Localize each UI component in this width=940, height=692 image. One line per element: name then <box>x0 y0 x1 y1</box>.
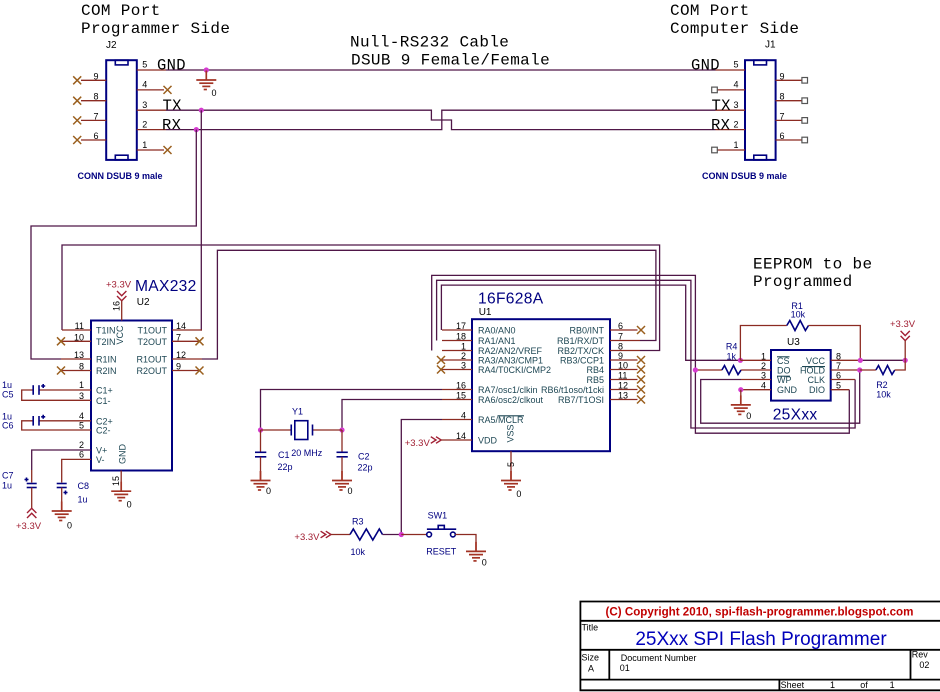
svg-text:T1OUT: T1OUT <box>137 326 167 336</box>
J1 pin 7 <box>776 111 808 123</box>
resistor R4 <box>695 342 771 375</box>
label EEPROM to be Programmed <box>753 256 872 292</box>
svg-text:GND: GND <box>691 57 720 75</box>
svg-text:R3: R3 <box>352 516 364 526</box>
U1 pin 15 stub <box>442 391 472 401</box>
node reset junction <box>399 532 404 537</box>
U1 pin 8 stub <box>610 342 640 352</box>
svg-text:C1-: C1- <box>96 396 111 406</box>
node VCC-R1 junction <box>858 358 863 363</box>
svg-text:2: 2 <box>461 351 466 361</box>
label COM Port Computer Side <box>670 2 799 38</box>
svg-text:Programmed: Programmed <box>753 273 853 291</box>
svg-text:RA0/AN0: RA0/AN0 <box>478 326 516 336</box>
svg-text:Sheet: Sheet <box>781 680 805 690</box>
capacitor C2 <box>337 430 373 480</box>
U1 pin 7 stub <box>610 332 640 342</box>
capacitor C6 <box>2 411 91 431</box>
svg-text:MAX232: MAX232 <box>135 278 197 295</box>
svg-text:CONN DSUB 9 male: CONN DSUB 9 male <box>78 171 163 181</box>
svg-text:RB1/RX/DT: RB1/RX/DT <box>557 336 605 346</box>
wire RA7 to crystal node A <box>261 390 443 431</box>
svg-text:RA3/AN3/CMP1: RA3/AN3/CMP1 <box>478 356 543 366</box>
J2 pin 9 <box>73 71 106 84</box>
wire RA2 net to R4 and EEPROM DIO <box>432 275 850 433</box>
svg-text:+3.3V: +3.3V <box>16 521 42 532</box>
svg-text:CS: CS <box>777 356 790 366</box>
svg-text:10k: 10k <box>876 389 891 399</box>
svg-text:11: 11 <box>75 321 84 331</box>
svg-text:C2: C2 <box>358 452 370 462</box>
svg-text:0: 0 <box>212 88 217 98</box>
J2 pin 2 <box>137 116 182 134</box>
U1 pin 9 no-connect <box>610 351 645 364</box>
svg-text:SW1: SW1 <box>428 511 448 521</box>
svg-text:7: 7 <box>94 111 99 121</box>
svg-text:VSS: VSS <box>506 424 516 442</box>
op-amp U2 MAX232 body <box>91 278 197 471</box>
svg-text:C8: C8 <box>78 481 90 491</box>
power +3.3V at U2 pin 16 <box>106 280 132 321</box>
svg-text:3: 3 <box>461 361 466 371</box>
svg-text:8: 8 <box>618 342 623 352</box>
J2 pin 6 <box>73 131 106 144</box>
svg-text:7: 7 <box>176 333 181 343</box>
svg-text:1u: 1u <box>2 481 12 491</box>
svg-text:RB2/TX/CK: RB2/TX/CK <box>557 346 604 356</box>
svg-text:COM Port: COM Port <box>670 2 750 20</box>
svg-text:22p: 22p <box>358 463 373 473</box>
svg-text:9: 9 <box>780 71 785 81</box>
svg-text:DIO: DIO <box>809 385 825 395</box>
EEPROM U3 25Xxx body <box>771 337 831 424</box>
svg-text:10k: 10k <box>791 310 806 320</box>
U1 pin 5 VSS stub <box>506 451 516 479</box>
svg-text:7: 7 <box>618 332 623 342</box>
svg-text:0: 0 <box>67 521 72 531</box>
svg-text:3: 3 <box>761 371 766 381</box>
svg-text:9: 9 <box>176 362 181 372</box>
svg-text:6: 6 <box>94 131 99 141</box>
svg-text:RB7/T1OSI: RB7/T1OSI <box>558 395 604 405</box>
svg-text:13: 13 <box>618 391 628 401</box>
svg-text:DSUB 9 Female/Female: DSUB 9 Female/Female <box>351 52 550 70</box>
svg-text:RB6/t1oso/t1cki: RB6/t1oso/t1cki <box>541 385 604 395</box>
node GND junction <box>204 67 209 72</box>
svg-text:RA6/osc2/clkout: RA6/osc2/clkout <box>478 395 544 405</box>
label COM Port Programmer Side <box>81 2 230 38</box>
svg-text:10: 10 <box>618 361 628 371</box>
U1 pin 2 no-connect <box>437 351 472 364</box>
svg-text:Size: Size <box>582 653 600 663</box>
wire RA6 to crystal node B <box>342 400 442 431</box>
wire MCLR to reset node <box>401 420 442 535</box>
U1 pin 13 no-connect <box>610 391 645 404</box>
svg-text:+3.3V: +3.3V <box>890 319 916 330</box>
svg-text:GND: GND <box>118 444 128 465</box>
svg-text:C7: C7 <box>2 471 14 481</box>
svg-text:Programmer Side: Programmer Side <box>81 20 230 38</box>
svg-text:RX: RX <box>162 116 182 134</box>
svg-text:4: 4 <box>142 80 147 90</box>
svg-text:6: 6 <box>836 371 841 381</box>
crystal Y1 <box>261 407 343 459</box>
power +3.3V at R3 <box>294 531 331 543</box>
svg-text:RB4: RB4 <box>586 365 604 375</box>
svg-text:RX: RX <box>711 116 731 134</box>
wire U2 T1IN riser to U1 RB2 <box>62 245 660 351</box>
svg-text:T1IN: T1IN <box>96 326 116 336</box>
svg-text:0: 0 <box>127 499 132 509</box>
node EEPROM CS junction <box>738 358 743 363</box>
svg-text:U1: U1 <box>479 307 492 318</box>
svg-text:02: 02 <box>919 660 929 670</box>
svg-text:J2: J2 <box>106 40 117 51</box>
U2 pin 12 R1OUT stub <box>172 350 202 360</box>
ground 0 below C1 <box>251 471 272 496</box>
svg-text:4: 4 <box>761 381 766 391</box>
svg-text:0: 0 <box>266 486 271 496</box>
svg-text:7: 7 <box>780 111 785 121</box>
J1 pin 2 <box>711 116 745 134</box>
U1 pin 3 no-connect <box>437 361 472 374</box>
node EEPROM GND junction <box>738 387 743 392</box>
J2 pin 7 <box>73 111 106 124</box>
svg-text:12: 12 <box>618 381 628 391</box>
svg-text:R2OUT: R2OUT <box>136 366 167 376</box>
wire RA0 net to EEPROM CS <box>441 285 740 360</box>
svg-text:U2: U2 <box>137 297 150 308</box>
svg-text:0: 0 <box>482 558 487 568</box>
U1 pin 18 stub <box>442 332 472 342</box>
U1 pin 1 stub <box>442 342 472 352</box>
svg-text:8: 8 <box>79 362 84 372</box>
svg-text:1u: 1u <box>78 495 88 505</box>
svg-text:14: 14 <box>176 321 186 331</box>
J2 pin 4 <box>137 80 172 94</box>
node crystal left <box>258 427 263 432</box>
U2 pin 14 T1OUT stub <box>172 321 202 331</box>
U2 pin 7 T2OUT no-connect <box>172 333 204 346</box>
J1 pin 6 <box>776 131 808 143</box>
J2 pin 5 <box>137 57 186 75</box>
connector J2 <box>78 40 163 181</box>
svg-text:RB0/INT: RB0/INT <box>569 326 604 336</box>
wire RA1 net to EEPROM CLK <box>437 280 855 428</box>
ground 0 at GND net <box>196 71 216 99</box>
U1 pin 11 no-connect <box>610 371 645 384</box>
wire TX junction down to U2 T1OUT <box>200 110 203 330</box>
wire SW1 to ground <box>455 535 476 551</box>
svg-text:(C) Copyright 2010, spi-flash-: (C) Copyright 2010, spi-flash-programmer… <box>606 605 914 618</box>
U3 pin 3 WP wire to HOLD loop <box>701 370 860 423</box>
svg-text:VCC: VCC <box>115 325 125 345</box>
svg-text:J1: J1 <box>765 40 776 51</box>
svg-text:Title: Title <box>582 623 599 633</box>
svg-text:5: 5 <box>506 462 516 467</box>
title block sheet row <box>781 680 895 690</box>
U1 pin 10 no-connect <box>610 361 645 374</box>
wire U2 V+ to C7 <box>32 440 91 482</box>
svg-text:0: 0 <box>516 489 521 499</box>
switch SW1 RESET <box>401 511 457 557</box>
U2 pin 8 R2IN no-connect <box>57 362 91 375</box>
J2 pin 8 <box>73 92 106 105</box>
J1 pin 5 <box>691 57 745 75</box>
svg-text:4: 4 <box>79 411 84 421</box>
title block frame <box>580 602 940 691</box>
svg-text:12: 12 <box>176 350 186 360</box>
svg-text:RESET: RESET <box>426 547 457 557</box>
node R4 to RA2 net junction <box>693 367 698 372</box>
svg-text:18: 18 <box>456 332 466 342</box>
svg-text:COM Port: COM Port <box>81 2 161 20</box>
ground 0 at U1 VSS <box>501 471 521 499</box>
svg-text:15: 15 <box>456 391 466 401</box>
svg-text:GND: GND <box>777 385 798 395</box>
svg-text:TX: TX <box>712 97 732 115</box>
svg-text:+3.3V: +3.3V <box>294 532 320 543</box>
svg-text:T2IN: T2IN <box>96 337 116 347</box>
svg-text:16: 16 <box>456 381 466 391</box>
U2 pin 15 GND stub <box>111 471 121 491</box>
svg-text:1: 1 <box>890 680 895 690</box>
svg-text:RA1/AN1: RA1/AN1 <box>478 336 516 346</box>
svg-text:5: 5 <box>142 60 147 70</box>
svg-text:14: 14 <box>456 431 466 441</box>
svg-text:Y1: Y1 <box>292 407 303 417</box>
svg-text:EEPROM to be: EEPROM to be <box>753 256 872 274</box>
svg-text:16F628A: 16F628A <box>478 291 544 308</box>
U3 pin 8 VCC stub <box>831 351 861 361</box>
capacitor C8 <box>57 481 89 510</box>
J1 pin 8 <box>776 92 808 104</box>
wire RX net J2.2 to J1.3 (crossover) <box>166 110 716 129</box>
svg-text:4: 4 <box>461 411 466 421</box>
svg-text:0: 0 <box>746 411 751 421</box>
svg-text:1: 1 <box>830 680 835 690</box>
svg-text:1k: 1k <box>727 352 737 362</box>
U2 pin 9 R2OUT no-connect <box>172 362 204 375</box>
U3 pin 1 CS stub <box>740 351 771 361</box>
svg-text:RA4/T0CKI/CMP2: RA4/T0CKI/CMP2 <box>478 365 551 375</box>
resistor R2 <box>860 360 906 399</box>
svg-text:11: 11 <box>618 371 627 381</box>
svg-text:CONN DSUB 9 male: CONN DSUB 9 male <box>702 171 787 181</box>
svg-text:4: 4 <box>733 80 738 90</box>
svg-text:1: 1 <box>733 140 738 150</box>
svg-text:GND: GND <box>157 57 186 75</box>
svg-text:+3.3V: +3.3V <box>405 438 431 449</box>
svg-text:10k: 10k <box>351 547 366 557</box>
node RX junction <box>194 127 199 132</box>
svg-text:Rev: Rev <box>912 650 929 660</box>
svg-text:R1OUT: R1OUT <box>136 355 167 365</box>
svg-text:5: 5 <box>733 60 738 70</box>
svg-text:DO: DO <box>777 366 791 376</box>
svg-text:25Xxx: 25Xxx <box>773 407 818 424</box>
svg-text:3: 3 <box>142 100 147 110</box>
label Null-RS232 Cable DSUB 9 Female/Female <box>350 34 550 70</box>
capacitor C7 <box>2 471 37 509</box>
svg-text:RB3/CCP1: RB3/CCP1 <box>560 356 604 366</box>
svg-text:RA5/MCLR: RA5/MCLR <box>478 415 524 425</box>
svg-text:6: 6 <box>618 321 623 331</box>
wire EEPROM GND down <box>740 390 742 404</box>
U2 pin 13 R1IN stub <box>61 350 91 360</box>
svg-text:Null-RS232 Cable: Null-RS232 Cable <box>350 34 509 52</box>
svg-text:2: 2 <box>142 120 147 130</box>
node crystal right <box>339 427 344 432</box>
svg-text:2: 2 <box>733 120 738 130</box>
svg-text:16: 16 <box>112 301 122 311</box>
U3 pin 6 CLK stub <box>831 371 855 381</box>
svg-text:13: 13 <box>74 350 84 360</box>
power +3.3V at EEPROM <box>890 319 916 361</box>
svg-text:VCC: VCC <box>806 356 826 366</box>
ground 0 at U2 pin 15 <box>111 482 131 510</box>
svg-text:VDD: VDD <box>478 436 498 446</box>
wire TX net J2.3 to J1.2 (crossover) <box>166 110 716 129</box>
node HOLD junction <box>857 367 862 372</box>
ground 0 at EEPROM <box>731 395 752 421</box>
svg-text:A: A <box>588 664 594 674</box>
svg-text:5: 5 <box>836 381 841 391</box>
capacitor C1 <box>255 430 293 480</box>
J1 pin 9 <box>776 71 808 83</box>
wire U2 V- to C8 <box>62 450 91 483</box>
ground 0 below C8 <box>52 502 72 531</box>
svg-text:U3: U3 <box>787 337 800 348</box>
J2 pin 1 <box>137 140 172 154</box>
svg-text:RA2/AN2/VREF: RA2/AN2/VREF <box>478 346 543 356</box>
ground 0 at SW1 <box>466 542 487 568</box>
svg-text:CLK: CLK <box>807 375 825 385</box>
wire U2 R1OUT riser to U1 RB1 <box>202 250 656 359</box>
capacitor C5 <box>2 380 91 401</box>
svg-text:C6: C6 <box>2 421 14 431</box>
U1 pin 12 no-connect <box>610 381 645 394</box>
svg-text:9: 9 <box>94 71 99 81</box>
svg-text:8: 8 <box>780 92 785 102</box>
J1 pin 3 <box>712 97 746 115</box>
svg-text:25Xxx SPI Flash Programmer: 25Xxx SPI Flash Programmer <box>635 629 887 650</box>
J1 pin 4 <box>712 80 745 93</box>
wire RX junction down-left to U2 R1IN <box>31 130 196 359</box>
U1 pin 14 VDD with +3.3V <box>405 431 472 449</box>
svg-text:RB5: RB5 <box>586 375 604 385</box>
svg-text:TX: TX <box>163 97 183 115</box>
svg-text:R4: R4 <box>726 342 738 352</box>
svg-text:V-: V- <box>96 455 105 465</box>
svg-text:RA7/osc1/clkin: RA7/osc1/clkin <box>478 385 538 395</box>
U2 pin 10 T2IN no-connect <box>57 333 91 346</box>
svg-text:C2-: C2- <box>96 426 111 436</box>
svg-text:8: 8 <box>836 351 841 361</box>
J1 pin 1 <box>712 140 745 153</box>
svg-text:+3.3V: +3.3V <box>106 280 132 291</box>
resistor R3 <box>331 516 401 557</box>
wire GND net J2.5 to J1.5 <box>166 69 716 71</box>
svg-text:C1+: C1+ <box>96 386 113 396</box>
svg-text:9: 9 <box>618 351 623 361</box>
svg-text:R1IN: R1IN <box>96 355 117 365</box>
J2 pin 3 <box>137 97 182 115</box>
svg-text:of: of <box>860 680 868 690</box>
U3 pin 4 GND stub <box>741 381 771 391</box>
svg-text:17: 17 <box>456 321 466 331</box>
svg-text:2: 2 <box>761 361 766 371</box>
svg-text:C1: C1 <box>278 450 290 460</box>
svg-text:0: 0 <box>348 486 353 496</box>
U1 pin 16 stub <box>442 381 472 391</box>
wire VCC row to +3.3V riser <box>860 359 905 361</box>
U1 pin 17 stub <box>442 321 472 331</box>
svg-text:1: 1 <box>142 140 147 150</box>
svg-text:1: 1 <box>461 342 466 352</box>
U2 pin 11 T1IN stub <box>62 321 91 331</box>
svg-text:01: 01 <box>620 663 630 673</box>
node VCC +3.3V junction <box>903 358 908 363</box>
U1 pin 4 MCLR stub <box>442 411 472 421</box>
svg-text:15: 15 <box>111 476 121 486</box>
svg-text:T2OUT: T2OUT <box>137 337 167 347</box>
svg-text:R2IN: R2IN <box>96 366 117 376</box>
svg-text:1: 1 <box>761 351 766 361</box>
power +3.3V below C7 <box>16 508 42 532</box>
svg-text:C5: C5 <box>2 389 14 399</box>
resistor R1 <box>740 301 860 360</box>
microcontroller U1 16F628A body <box>472 291 610 452</box>
svg-text:Document Number: Document Number <box>621 653 697 663</box>
svg-text:6: 6 <box>780 131 785 141</box>
svg-text:8: 8 <box>94 92 99 102</box>
svg-text:6: 6 <box>79 450 84 460</box>
svg-text:22p: 22p <box>278 462 293 472</box>
svg-text:1: 1 <box>79 380 84 390</box>
svg-text:7: 7 <box>836 361 841 371</box>
U3 pin 5 DIO stub <box>831 381 850 391</box>
svg-text:20 MHz: 20 MHz <box>291 448 323 458</box>
svg-text:5: 5 <box>79 421 84 431</box>
node TX junction <box>199 108 204 113</box>
svg-text:10: 10 <box>74 333 84 343</box>
connector J1 <box>702 40 787 182</box>
svg-text:Computer Side: Computer Side <box>670 20 799 38</box>
U1 pin 6 no-connect <box>610 321 645 334</box>
svg-text:3: 3 <box>733 100 738 110</box>
U3 pin 7 HOLD stub <box>831 361 860 371</box>
svg-text:3: 3 <box>79 391 84 401</box>
ground 0 below C2 <box>332 471 353 496</box>
